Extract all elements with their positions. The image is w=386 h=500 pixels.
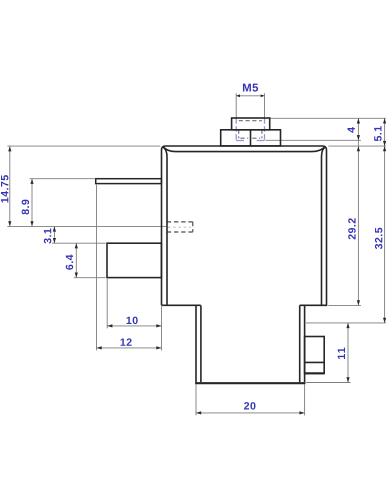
hidden side hole (dashed) on left of body [167, 222, 193, 232]
dim line 8.9 [31, 179, 33, 227]
hidden thread lines (blue dashed) M5 tapped hole [236, 118, 264, 140]
dim line 3.1 [53, 226, 55, 243]
arrows 11 [346, 323, 349, 328]
arrows 12 [97, 346, 102, 349]
ext: nut top right (4 / 5.1 top) [271, 117, 386, 119]
dim line 20 [196, 412, 305, 414]
ext: M5 left vertical [235, 93, 237, 117]
top lower block [221, 130, 281, 146]
bottom section inner tangent lines [200, 305, 202, 382]
split line in lower block [250, 130, 252, 146]
ext: M5 right vertical [264, 93, 266, 117]
label 10 [127, 317, 138, 325]
main body outline (thick) [96, 118, 327, 383]
hidden pilot hole (gray dashed) inside nut [239, 121, 262, 139]
arrows 5.1 [383, 118, 386, 123]
left port block [107, 243, 161, 277]
label 14.75 [1, 175, 8, 202]
arrows 29.2 [357, 146, 360, 151]
ext: hole center line left (14.75/8.9 bottom, 3.1 top) [7, 225, 166, 227]
dim line 10 [107, 325, 161, 327]
label 20 [244, 402, 255, 410]
ext: bottom right (11 bottom) [306, 382, 350, 384]
arrows 8.9 [30, 179, 33, 184]
ext: tab top (8.9 top) [30, 178, 95, 180]
ext: right port reference (32.5 bottom / 11 top) [306, 322, 386, 324]
ext: body top right (5.1 bottom / 29.2 / 32.5 top) [328, 145, 386, 147]
inner tangent line (fillet edge) of body, merging into outer corners [163, 147, 167, 305]
right port block [305, 337, 325, 374]
arrows 6.4 [75, 243, 78, 248]
ext: tab left vertical (12) [96, 185, 98, 351]
arrowheads (dark) [8, 94, 386, 414]
extension lines (thin gray) [7, 93, 386, 415]
dim line M5 [236, 95, 264, 97]
label 11 [338, 348, 345, 359]
dim line 12 [97, 347, 162, 349]
arrows 14.75 [8, 146, 11, 151]
outer silhouette of body with bottom section [162, 146, 327, 382]
dim line 6.4 [75, 243, 77, 278]
ext: body top, left side (14.75 top) [7, 145, 160, 147]
ext: step right (29.2 bottom) [328, 304, 361, 306]
ext: thread hole bottom right (4 bottom) [266, 139, 361, 141]
label 8.9 [22, 200, 30, 215]
dim line 5.1 + 32.5 (shared vertical) [384, 118, 386, 323]
ext: port bottom (6.4 bottom) [74, 277, 106, 279]
label 12 [121, 338, 132, 345]
ext: body left vertical below step (10/12) [161, 306, 163, 350]
arrows 32.5 [383, 146, 386, 151]
top nut upper block [232, 118, 270, 130]
label M5 [243, 84, 258, 92]
arrows 10 [107, 324, 112, 327]
dim line 14.75 [9, 146, 11, 226]
arrows 4 [357, 118, 360, 123]
ext: port left vertical (10) [106, 279, 108, 329]
label 5.1 [374, 126, 381, 141]
label 32.5 [375, 228, 383, 249]
ext: bottom section right vertical (20) [304, 384, 306, 415]
label 29.2 [348, 218, 356, 239]
left tab (spade) [96, 179, 162, 184]
bottom edge of bottom section [195, 382, 305, 384]
label 3.1 [44, 228, 52, 243]
arrows 3.1 [53, 226, 56, 231]
dim line 4 + 29.2 (shared vertical) [357, 118, 359, 305]
ext: bottom section left vertical (20) [195, 384, 197, 415]
dim line 11 [347, 323, 349, 383]
label 6.4 [66, 255, 74, 270]
ext: port top (3.1 bottom) [52, 242, 106, 244]
dimension lines (thin gray) [10, 96, 385, 413]
arrows 20 [196, 411, 201, 414]
dimension texts [1, 84, 382, 410]
label 4 [348, 127, 355, 133]
arrows M5 [236, 94, 240, 97]
